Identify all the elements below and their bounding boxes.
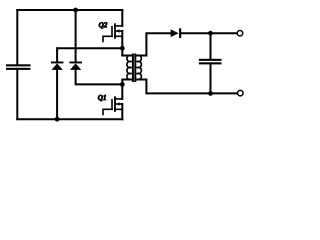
transformer T1 core: [132, 55, 134, 82]
terminal output minus: [238, 90, 244, 96]
wire Q2 source rail to D1: [57, 47, 122, 49]
terminal output plus: [237, 30, 243, 36]
diode D3: [171, 28, 182, 38]
wire Q1 drain to node B: [121, 84, 123, 99]
wire D1 cathode up: [56, 48, 58, 61]
wire C_out bottom lead: [210, 64, 212, 93]
capacitor C_in: [6, 64, 31, 70]
diode D1: [51, 62, 64, 70]
wire Q2 drain to top rail: [121, 10, 123, 26]
wire C_out top lead: [210, 33, 212, 59]
wire secondary bottom lead to output minus: [137, 80, 237, 94]
Q2 body stub with arrow: [116, 30, 123, 32]
node junction dot D1 / bottom rail: [55, 117, 60, 122]
Q1 gate lead: [103, 109, 112, 114]
node junction dot output minus: [208, 91, 213, 96]
Q1 body stub with arrow: [116, 103, 123, 105]
Q2 drain stub: [115, 25, 122, 27]
Q1 drain stub: [115, 98, 122, 100]
transformer T1 primary winding: [127, 55, 131, 79]
node B junction dot (Q1 drain / D2 / primary bottom): [120, 82, 125, 87]
Q2 source stub: [115, 35, 122, 37]
Q1 channel bar: [114, 97, 116, 111]
wire secondary top lead to D3: [137, 33, 171, 55]
transformer T1 secondary winding: [137, 55, 141, 79]
Q2 channel bar: [114, 24, 116, 38]
Q2 gate lead: [103, 36, 112, 41]
wire bottom rail: [17, 118, 122, 120]
transistor Q1: [103, 97, 122, 114]
wire D3 cathode to output plus terminal: [181, 32, 237, 34]
wire primary top lead: [122, 48, 131, 55]
label Q2: [99, 22, 107, 28]
wire primary bottom lead: [122, 80, 131, 85]
capacitor C_out: [199, 59, 222, 65]
node junction dot top rail / D2: [73, 8, 78, 13]
diode D2: [69, 62, 82, 70]
wire left rail lower: [16, 70, 18, 119]
node A junction dot (Q2 source / D1 / primary top): [120, 46, 125, 51]
wire Q2 source down to node A: [121, 31, 123, 48]
wire D1 anode to bottom rail: [56, 70, 58, 119]
wire D2 anode down and right to phase node B: [76, 70, 123, 85]
wire Q1 source to bottom rail: [121, 104, 123, 119]
Q1 gate bar: [111, 100, 113, 110]
wire left rail upper: [16, 10, 18, 64]
wire top rail: [17, 9, 122, 11]
label Q1: [98, 95, 106, 101]
node junction dot output plus: [208, 31, 213, 36]
Q2 gate bar: [111, 27, 113, 37]
Q1 source stub: [115, 108, 122, 110]
wire D2 cathode to top rail: [75, 10, 77, 62]
transistor Q2: [103, 24, 122, 41]
